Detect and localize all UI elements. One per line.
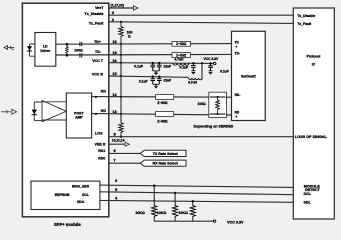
svg-text:IC: IC bbox=[312, 62, 316, 66]
svg-text:RS1: RS1 bbox=[98, 149, 105, 153]
module pin labels bbox=[85, 6, 107, 160]
svg-text:10KΩ: 10KΩ bbox=[178, 211, 188, 215]
VeeR net arrow (10,11,14) bbox=[109, 138, 130, 146]
svg-text:Protocol: Protocol bbox=[307, 54, 321, 58]
Z~50 box RX- bbox=[156, 112, 174, 124]
capacitor C3 0.1uF on VCC T bbox=[134, 62, 155, 71]
svg-text:TD-: TD- bbox=[235, 52, 240, 56]
capacitor C5 0.1uF after L1 bbox=[180, 62, 196, 74]
svg-text:RD: RD bbox=[235, 110, 240, 114]
svg-text:SDL: SDL bbox=[304, 200, 312, 204]
svg-text:Z~50Ω: Z~50Ω bbox=[157, 119, 168, 123]
photodiode D2 bbox=[32, 102, 42, 121]
svg-text:Tx_Fault: Tx_Fault bbox=[297, 22, 312, 26]
wire RD+ (pin12 row) bbox=[92, 96, 232, 98]
connector pin numbers bbox=[112, 10, 118, 200]
svg-text:SDA: SDA bbox=[77, 200, 85, 204]
EEPROM box U3 bbox=[31, 181, 100, 209]
svg-text:0.1uF: 0.1uF bbox=[180, 65, 189, 69]
VCC 3.3V terminal top bbox=[204, 57, 219, 65]
svg-text:Depending on SERDES: Depending on SERDES bbox=[194, 125, 234, 129]
svg-text:10KΩ: 10KΩ bbox=[157, 211, 167, 215]
capacitor C1 (TD+ series) bbox=[80, 42, 82, 46]
svg-text:+: + bbox=[235, 45, 237, 49]
post amplifier U2 bbox=[66, 93, 91, 138]
capacitor C7 0.1uF on VCC R bbox=[139, 75, 155, 84]
svg-text:7: 7 bbox=[114, 158, 116, 163]
svg-text:4.7uH: 4.7uH bbox=[174, 58, 184, 62]
laser diode D1 bbox=[27, 44, 35, 56]
svg-text:VCC R: VCC R bbox=[92, 72, 104, 76]
svg-text:Tx_Disable: Tx_Disable bbox=[85, 12, 104, 16]
wire TD- bbox=[56, 53, 232, 56]
svg-text:SerDesIC: SerDesIC bbox=[241, 75, 257, 79]
svg-text:Tx_Disable: Tx_Disable bbox=[297, 14, 315, 18]
svg-text:0.1uF: 0.1uF bbox=[134, 64, 143, 68]
svg-text:22uF: 22uF bbox=[164, 79, 172, 83]
svg-text:VCC T: VCC T bbox=[92, 59, 104, 63]
svg-text:RX Rate Select: RX Rate Select bbox=[153, 162, 179, 166]
ground for C7 C8 bbox=[153, 84, 160, 88]
svg-text:Z~50Ω: Z~50Ω bbox=[176, 42, 187, 46]
svg-text:+: + bbox=[235, 115, 237, 119]
svg-text:RD-: RD- bbox=[235, 93, 241, 97]
RX rate select flag bbox=[140, 160, 186, 166]
svg-text:Ω: Ω bbox=[128, 34, 131, 38]
svg-text:RD: RD bbox=[101, 109, 107, 113]
wire SCL (pin5 row) bbox=[100, 192, 293, 195]
svg-text:VCC 3.3V: VCC 3.3V bbox=[204, 57, 219, 61]
svg-text:RD: RD bbox=[101, 90, 107, 94]
wire Tx_Disable (pin3 row) bbox=[109, 14, 293, 16]
svg-text:100Ω: 100Ω bbox=[74, 48, 83, 52]
svg-text:Driver: Driver bbox=[40, 49, 50, 53]
wire SDA (pin4 row) bbox=[100, 200, 293, 202]
note depending on serdes bbox=[194, 125, 234, 129]
svg-text:Z~50Ω: Z~50Ω bbox=[157, 101, 168, 105]
capacitor C8 22uF on VCC R bbox=[157, 76, 171, 85]
svg-text:RS0: RS0 bbox=[98, 156, 105, 160]
svg-text:SCL: SCL bbox=[82, 193, 89, 197]
resistor 100ohm RX termination box bbox=[198, 92, 227, 117]
svg-text:SCL: SCL bbox=[304, 192, 312, 196]
svg-text:MOD_ABS: MOD_ABS bbox=[72, 184, 90, 188]
TX optical port arrow bbox=[4, 46, 14, 51]
resistor R1 10K pullup Tx_Fault bbox=[119, 22, 134, 43]
svg-text:10,11,14: 10,11,14 bbox=[112, 138, 125, 142]
inductor L1 4.7uH on VCC T bbox=[173, 58, 189, 66]
RX optical port arrow bbox=[1, 109, 17, 114]
resistor R4 10K pullup SCL bbox=[157, 192, 178, 222]
wire Tx_Fault (pin2 row) bbox=[109, 21, 293, 24]
wire MOD_ABS (pin6 row) bbox=[100, 185, 293, 187]
svg-text:SFP+ module: SFP+ module bbox=[54, 222, 81, 227]
svg-text:0.1uF: 0.1uF bbox=[139, 79, 148, 83]
VeeT net arrow (1,17,20) bbox=[109, 3, 138, 10]
wire VCC R (pin15 row) bbox=[109, 76, 189, 77]
wire VCC T to VCC R join bbox=[201, 62, 203, 79]
LD driver U1 bbox=[35, 33, 56, 67]
wire VCC T (pin16 row) bbox=[109, 62, 214, 65]
svg-text:(1,17,20): (1,17,20) bbox=[111, 3, 124, 7]
svg-text:LOSS OF SINGAL: LOSS OF SINGAL bbox=[295, 135, 328, 139]
TX rate select flag bbox=[140, 150, 186, 156]
svg-text:10KΩ: 10KΩ bbox=[135, 211, 145, 215]
capacitor C6 0.1uF at VCC terminal bbox=[208, 62, 229, 74]
Z~50 box RX+ bbox=[156, 95, 174, 106]
wire RS1 (pin9 row) bbox=[109, 152, 140, 154]
resistor 100ohm TX termination bbox=[66, 43, 83, 57]
svg-text:VCC 3.3V: VCC 3.3V bbox=[227, 221, 244, 225]
wire TD+ bbox=[56, 43, 232, 46]
svg-text:VEE R: VEE R bbox=[95, 142, 106, 146]
svg-text:TD-: TD- bbox=[95, 50, 102, 54]
resistor R2 10K pullup LOS bbox=[119, 123, 124, 138]
ground for C3 C4 bbox=[153, 71, 160, 75]
resistor R5 10K pullup SDA bbox=[178, 200, 195, 221]
svg-text:VeeT: VeeT bbox=[95, 6, 104, 10]
svg-text:22uF: 22uF bbox=[164, 65, 172, 69]
svg-text:TD: TD bbox=[235, 41, 240, 45]
svg-text:Tx_Fault: Tx_Fault bbox=[89, 22, 105, 26]
inductor L2 4.7uH on VCC R bbox=[188, 78, 202, 85]
svg-text:4.7uH: 4.7uH bbox=[188, 81, 198, 85]
svg-text:EEPROM: EEPROM bbox=[55, 193, 70, 197]
capacitor C4 22uF on VCC T bbox=[157, 62, 171, 71]
wire pullup common to VCC 3.3V bbox=[154, 220, 244, 225]
capacitor C2 (TD- series) bbox=[80, 53, 82, 57]
svg-text:AMP: AMP bbox=[75, 116, 83, 120]
svg-text:TD+: TD+ bbox=[94, 40, 101, 44]
wire RS0 (pin7 row) bbox=[109, 162, 140, 164]
SerDes IC U4 bbox=[232, 31, 266, 120]
amplifier triangle A1 bbox=[42, 100, 66, 121]
wire LOS (pin8 row) bbox=[109, 136, 293, 138]
Protocol IC U5 bbox=[293, 8, 334, 219]
resistor R3 10K pullup MOD_ABS bbox=[135, 185, 157, 222]
wire VCC rail vertical bbox=[120, 43, 122, 123]
svg-text:0.1uF: 0.1uF bbox=[220, 70, 229, 74]
wire RD- (pin13 row) bbox=[92, 113, 232, 115]
svg-text:100Ω: 100Ω bbox=[198, 102, 207, 106]
Z~50 box TX- bbox=[172, 53, 191, 58]
svg-text:TX Rate Select: TX Rate Select bbox=[153, 152, 179, 156]
Z~50 box TX+ bbox=[172, 41, 191, 46]
svg-text:LOS: LOS bbox=[95, 132, 103, 136]
SFP+ module box bbox=[22, 3, 108, 227]
